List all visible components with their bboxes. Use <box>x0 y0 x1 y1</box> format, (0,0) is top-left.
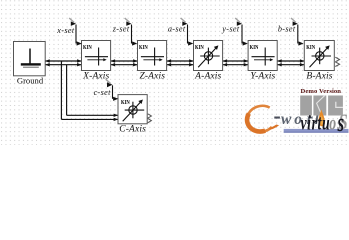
svg-text:KIN: KIN <box>121 100 130 106</box>
svg-text:virtu: virtu <box>300 111 330 135</box>
svg-text:w: w <box>281 111 292 128</box>
svg-text:Z-Axis: Z-Axis <box>139 71 165 81</box>
svg-text:KIN: KIN <box>139 45 148 51</box>
svg-text:KIN: KIN <box>250 45 259 51</box>
svg-text:b-set: b-set <box>278 25 296 34</box>
svg-text:a-set: a-set <box>168 25 186 34</box>
svg-text:A-Axis: A-Axis <box>194 71 221 81</box>
svg-text:x-set: x-set <box>56 26 75 35</box>
svg-text:z-set: z-set <box>112 25 130 34</box>
svg-text:KIN: KIN <box>306 45 315 51</box>
svg-text:y-set: y-set <box>221 25 240 34</box>
svg-text:s: s <box>337 107 344 137</box>
svg-text:Ground: Ground <box>17 76 44 86</box>
svg-text:C-Axis: C-Axis <box>119 125 146 135</box>
svg-text:KIN: KIN <box>195 45 204 51</box>
svg-text:Demo Version: Demo Version <box>301 88 342 95</box>
svg-text:c-set: c-set <box>94 88 112 97</box>
svg-text:X-Axis: X-Axis <box>82 71 109 81</box>
svg-text:Y-Axis: Y-Axis <box>250 71 275 81</box>
svg-text:B-Axis: B-Axis <box>306 71 332 81</box>
svg-text:o: o <box>329 111 336 135</box>
svg-text:KIN: KIN <box>83 45 92 51</box>
